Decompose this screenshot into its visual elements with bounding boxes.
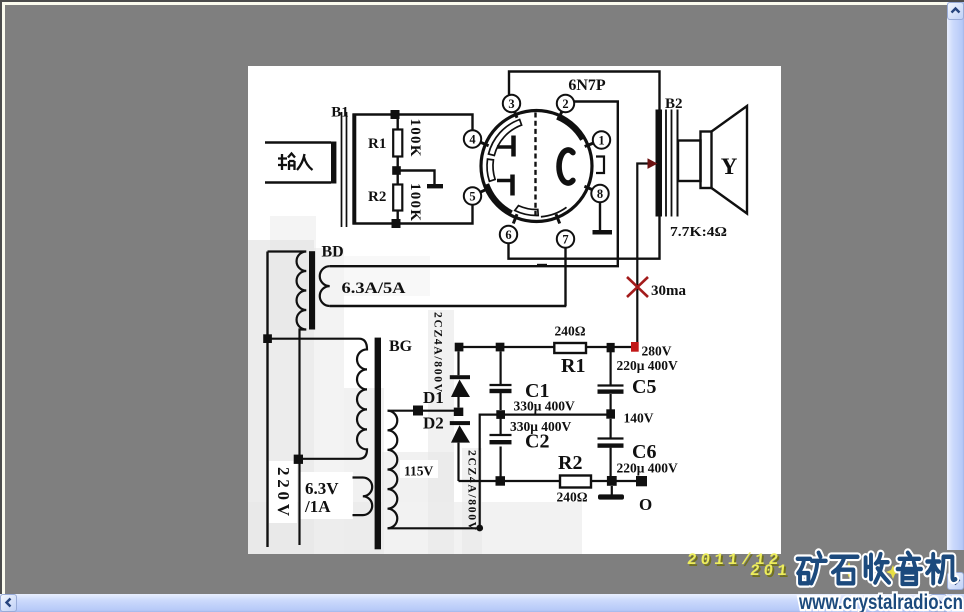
- svg-text:1: 1: [598, 134, 604, 148]
- tube socket slot arc bottom: [515, 206, 538, 216]
- sparkle 1: [841, 562, 857, 578]
- wire: pin7 heater wire down: [564, 248, 566, 306]
- wire: pin6 to B2 bottom: [509, 216, 660, 259]
- window chrome: top dark border: [0, 0, 964, 2]
- svg-text:100K: 100K: [407, 119, 423, 157]
- transformer BD secondary scallops: [320, 266, 330, 306]
- resistor R2 240ohm: [560, 476, 591, 488]
- svg-text:220V: 220V: [274, 467, 293, 517]
- capacitor C1: [490, 352, 512, 411]
- node: diode top: [455, 343, 464, 352]
- horizontal scrollbar: [0, 594, 947, 612]
- wire: grid ground stub: [400, 171, 435, 185]
- svg-text:140V: 140V: [624, 411, 654, 426]
- window chrome: top light line: [2, 2, 947, 5]
- tube 6N7P socket outline: [481, 111, 592, 222]
- node: C5 top: [607, 343, 615, 352]
- tube socket slot arc upper-left: [489, 120, 522, 156]
- vertical scrollbar: down button: [947, 572, 964, 590]
- window chrome: left light line: [2, 2, 5, 594]
- svg-text:C5: C5: [632, 376, 656, 398]
- svg-text:7: 7: [562, 233, 568, 247]
- B+ feed wire with arrow into B2: [637, 164, 648, 343]
- transformer BD primary winding: [268, 252, 307, 546]
- wire: R2 bottom lead: [397, 211, 399, 224]
- svg-text:3: 3: [508, 97, 514, 111]
- wire: input box bottom line: [265, 181, 331, 184]
- wire: diode column: [457, 352, 459, 482]
- capacitor C5: [598, 352, 624, 410]
- logo 矿石收音机 + www.crystalradio.cn: [770, 540, 964, 612]
- vertical scrollbar: [947, 2, 964, 550]
- svg-text:330μ 400V: 330μ 400V: [514, 399, 576, 414]
- node: 140V: [606, 409, 615, 418]
- transformer BG 6.3V winding: [353, 478, 373, 516]
- wire: pin8 to ground: [599, 202, 601, 230]
- node: C2 bottom: [496, 476, 506, 486]
- node: R1/R2 junction: [392, 166, 401, 175]
- wire: 115V top lead to diode junction: [388, 410, 460, 412]
- tube cathode C shape: [559, 150, 573, 183]
- svg-text:220μ 400V: 220μ 400V: [617, 461, 679, 476]
- tube element bar lower: [497, 179, 511, 183]
- gray patch of watermark over scrollbar: [947, 550, 964, 572]
- svg-text:30ma: 30ma: [651, 283, 686, 299]
- node: C1 bottom: [496, 410, 505, 419]
- wire: grid bottom wire to pin 5: [353, 205, 473, 224]
- date text 2011/12: [686, 551, 798, 569]
- svg-text:5: 5: [469, 190, 475, 204]
- mains left wire: [266, 252, 268, 548]
- char 收: [866, 554, 889, 583]
- tube socket thick arc upper-right: [557, 117, 582, 139]
- junction dot: [476, 525, 483, 532]
- svg-text:R1: R1: [561, 355, 585, 377]
- window chrome: left dark border: [0, 0, 2, 594]
- svg-text:/1A: /1A: [304, 497, 331, 516]
- transformer BG primary winding: [268, 339, 368, 459]
- white drawing canvas: [248, 66, 781, 554]
- wire: R1 top lead: [397, 115, 399, 130]
- vertical scrollbar: up button: [947, 2, 964, 20]
- svg-text:D2: D2: [423, 414, 444, 433]
- wire: mid rail riser: [480, 415, 611, 528]
- svg-text:4: 4: [469, 133, 476, 147]
- svg-text:R2: R2: [558, 452, 582, 474]
- tube socket slot arc lower-left: [487, 159, 495, 181]
- svg-text:2: 2: [562, 97, 568, 111]
- jpeg wash tints (decorative): [248, 216, 582, 554]
- node: C1 top: [496, 343, 505, 352]
- svg-text:220μ 400V: 220μ 400V: [617, 358, 679, 373]
- svg-text:www.crystalradio.cn: www.crystalradio.cn: [798, 591, 963, 612]
- wire: 115V bottom lead: [388, 527, 480, 529]
- svg-text:6.3V: 6.3V: [305, 479, 339, 498]
- tube socket thin arc bottom-right: [541, 207, 567, 217]
- horizontal scrollbar: right button: [930, 594, 947, 612]
- transformer B1 core lines: [342, 112, 347, 227]
- char 音: [898, 553, 921, 584]
- svg-text:2CZ4A/800V: 2CZ4A/800V: [432, 312, 444, 393]
- node: 280V (red): [631, 342, 639, 352]
- ground 0V bar: [611, 486, 613, 495]
- horizontal scrollbar: left button: [0, 594, 17, 612]
- sparkle 2: [886, 565, 900, 579]
- wire: grid top wire to pin 4: [353, 115, 473, 131]
- capacitor C2: [490, 415, 512, 477]
- node: diode mid: [454, 408, 464, 416]
- node: 115V top lead: [413, 406, 423, 416]
- svg-text:O: O: [639, 495, 652, 514]
- speaker Y: [678, 106, 747, 214]
- bottom rail: [459, 480, 642, 482]
- solder blip on heater wire: [537, 264, 547, 267]
- wire: pin3 to B2 top: [509, 72, 660, 110]
- char 机: [927, 554, 955, 583]
- wire: BD winding bottom line: [330, 305, 567, 307]
- svg-text:6.3A/5A: 6.3A/5A: [342, 280, 407, 297]
- svg-text:6N7P: 6N7P: [568, 77, 606, 94]
- tube pin1 bracket: [596, 157, 604, 174]
- capacitor C6: [598, 419, 624, 476]
- svg-text:8: 8: [597, 187, 603, 201]
- char 矿: [798, 553, 826, 584]
- transformer BD core bar: [309, 251, 315, 329]
- tube socket thick arc lower-left: [487, 184, 512, 213]
- node: BG primary bottom junction: [294, 455, 303, 464]
- resistor R1 240ohm: [554, 343, 586, 353]
- transformer BG 115V secondary winding: [388, 411, 398, 529]
- resistor R2 (100K): [393, 185, 402, 211]
- tube pin circles 1-8: [464, 95, 610, 248]
- transformer B2 core lines: [666, 110, 672, 217]
- diode D2 (2CZ4A/800V): [450, 421, 470, 425]
- wire: input box top line: [265, 141, 331, 144]
- svg-text:2CZ4A/800V: 2CZ4A/800V: [466, 450, 478, 531]
- tube element bar upper: [497, 145, 512, 149]
- node: output terminal: [636, 476, 647, 486]
- svg-text:115V: 115V: [404, 464, 434, 479]
- char 石: [831, 557, 857, 584]
- svg-text:7.7K:4Ω: 7.7K:4Ω: [670, 224, 727, 239]
- svg-text:C2: C2: [525, 431, 549, 453]
- svg-text:6: 6: [505, 228, 511, 242]
- transformer B2 primary bar: [656, 110, 663, 217]
- current X mark 30ma: [627, 277, 648, 297]
- scrollbar corner: [947, 594, 964, 612]
- svg-text:BG: BG: [389, 338, 413, 355]
- transformer B1 primary bar: [331, 142, 336, 184]
- svg-text:Y: Y: [721, 154, 738, 179]
- node: BG primary top junction: [263, 334, 272, 343]
- wire: pin2 heater wire to BD winding top: [330, 102, 618, 267]
- node: R2 bottom junction: [392, 219, 401, 228]
- svg-text:240Ω: 240Ω: [555, 324, 586, 339]
- arrow head (plate current): [648, 158, 658, 169]
- svg-text:280V: 280V: [642, 344, 672, 359]
- svg-text:BD: BD: [322, 244, 344, 261]
- resistor R1 (100K): [393, 130, 402, 157]
- label 输入: [278, 154, 313, 171]
- svg-text:100K: 100K: [407, 183, 423, 221]
- tube pin ticks: [479, 109, 594, 224]
- node: R1 top junction: [391, 110, 400, 119]
- node: 0V: [607, 476, 617, 486]
- transformer B2 secondary line: [677, 110, 679, 217]
- svg-text:R2: R2: [368, 189, 386, 205]
- svg-text:R1: R1: [368, 136, 386, 152]
- transformer B1 secondary bar: [352, 114, 356, 225]
- ground (input divider): [427, 184, 443, 188]
- svg-text:240Ω: 240Ω: [557, 490, 588, 505]
- wire: R1-R2 middle leads: [397, 157, 399, 185]
- svg-text:B2: B2: [665, 96, 683, 112]
- diode D1 (2CZ4A/800V): [450, 375, 470, 379]
- tube key dashed line: [534, 113, 536, 220]
- B+ top rail: [459, 346, 632, 348]
- transformer BG core bar: [375, 338, 381, 550]
- ground (cathode pin8): [593, 230, 613, 235]
